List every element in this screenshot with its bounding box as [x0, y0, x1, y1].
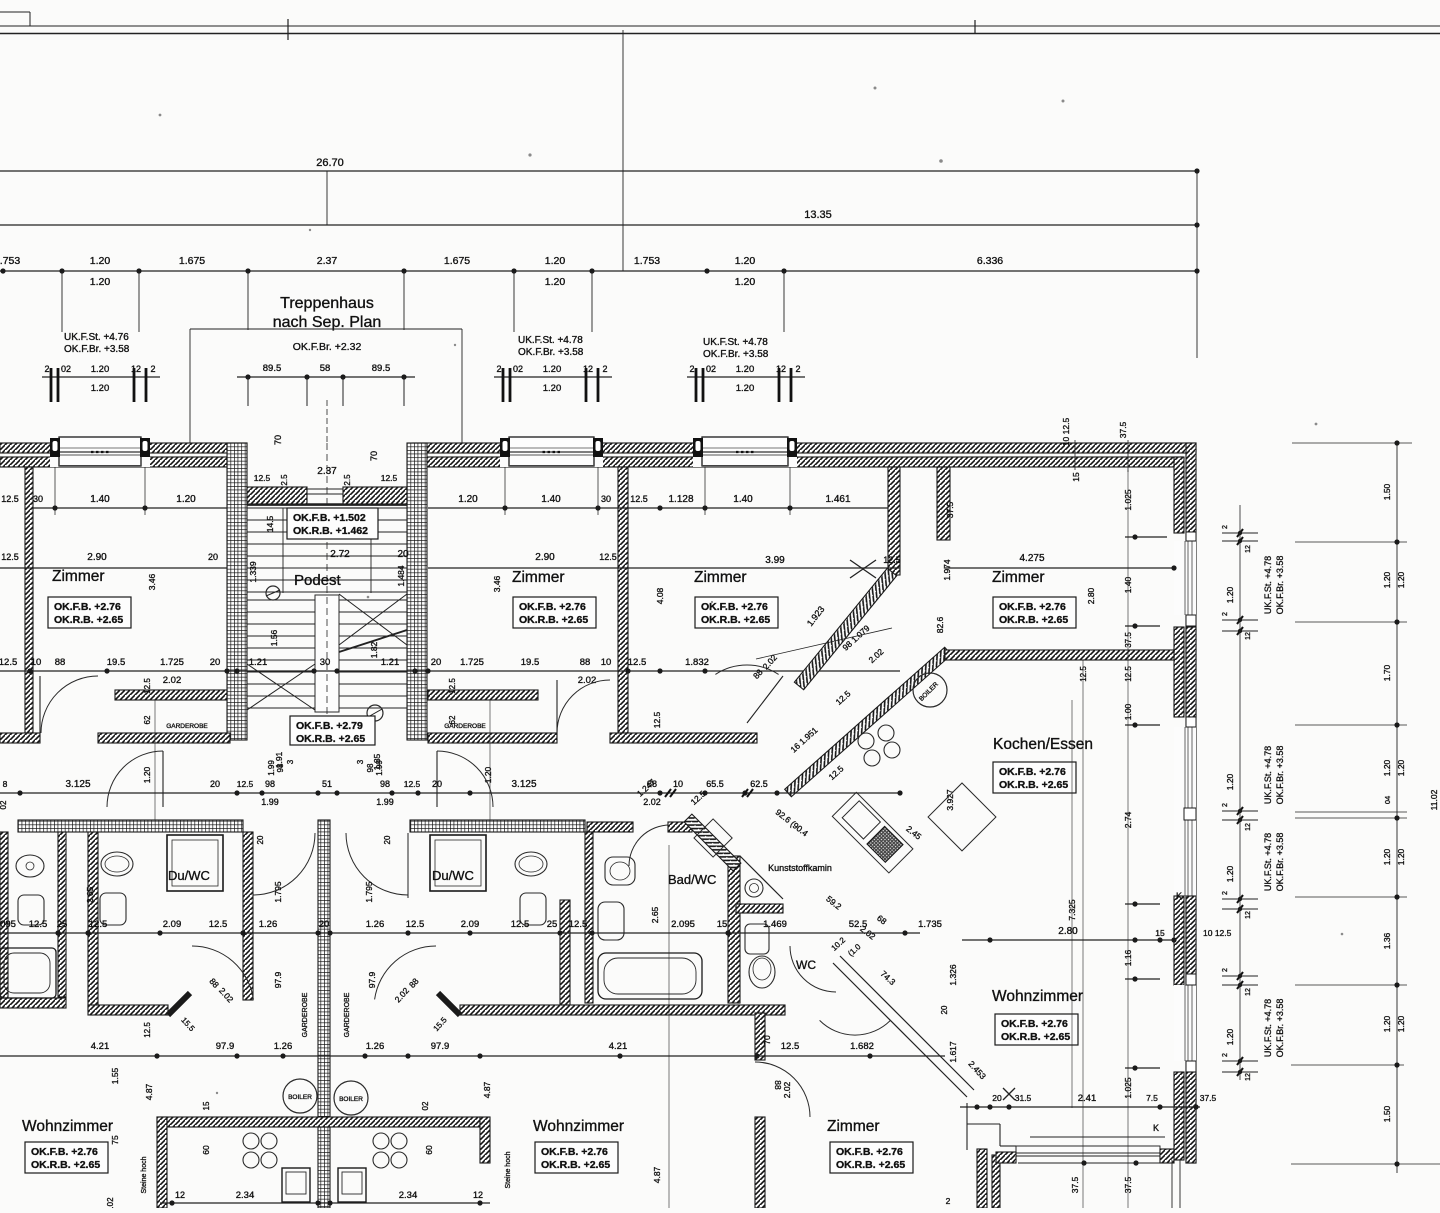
right grid line y542 — [1295, 541, 1407, 543]
wall x157 — [157, 1117, 167, 1208]
svg-text:1.20: 1.20 — [90, 276, 111, 288]
svg-text:88: 88 — [580, 657, 591, 668]
svg-text:1.21: 1.21 — [381, 657, 400, 668]
door arc corridor right — [346, 833, 408, 895]
svg-text:2: 2 — [1222, 891, 1229, 895]
svg-text:10 12.5: 10 12.5 — [1061, 418, 1071, 447]
svg-text:12.5: 12.5 — [630, 494, 648, 504]
vertical separator line — [622, 30, 624, 271]
svg-text:12: 12 — [473, 1190, 483, 1200]
svg-text:.02: .02 — [106, 1197, 115, 1208]
svg-text:OK.F.B. +2.76: OK.F.B. +2.76 — [31, 1146, 98, 1158]
svg-text:3.99: 3.99 — [765, 555, 785, 566]
svg-text:OK.F.B. +2.76: OK.F.B. +2.76 — [701, 601, 768, 613]
svg-text:2.5: 2.5 — [343, 474, 352, 486]
right grid line y812 — [1295, 811, 1407, 813]
svg-text:12.5: 12.5 — [406, 919, 425, 930]
stair entry wall right part — [343, 487, 407, 504]
door arc corridor to DuWC right — [437, 751, 493, 807]
svg-text:OK.F.Br. +3.58: OK.F.Br. +3.58 — [1275, 746, 1285, 805]
svg-text:20: 20 — [992, 1093, 1002, 1103]
svg-text:20: 20 — [210, 779, 220, 789]
extension line x1128 — [1127, 470, 1129, 1208]
wall below Zimmer1 left part — [0, 733, 40, 743]
svg-text:1.675: 1.675 — [444, 255, 470, 267]
svg-text:1.795: 1.795 — [273, 881, 283, 903]
svg-text:K: K — [1153, 1123, 1159, 1133]
exterior wall top inner left — [0, 457, 247, 467]
Zimmer5 level box — [830, 1142, 913, 1173]
door arc hall left — [192, 946, 253, 999]
svg-text:10 12.5: 10 12.5 — [1203, 928, 1232, 938]
svg-text:4.275: 4.275 — [1019, 553, 1044, 564]
bay corner left small — [996, 1152, 1016, 1163]
svg-text:1.20: 1.20 — [91, 383, 110, 394]
svg-text:Du/WC: Du/WC — [432, 868, 474, 883]
svg-text:13.35: 13.35 — [804, 209, 832, 221]
far right vertical — [1396, 443, 1398, 1173]
svg-text:4.87: 4.87 — [652, 1166, 662, 1183]
svg-text:Treppenhaus: Treppenhaus — [280, 295, 374, 312]
svg-text:2: 2 — [150, 364, 155, 374]
svg-text:OK.R.B. +2.65: OK.R.B. +2.65 — [296, 733, 365, 745]
small dim group mid — [494, 376, 612, 378]
svg-text:30: 30 — [33, 494, 43, 504]
svg-text:OK.R.B. +2.65: OK.R.B. +2.65 — [31, 1159, 100, 1171]
svg-text:2.90: 2.90 — [535, 552, 555, 563]
svg-text:97.9: 97.9 — [273, 971, 283, 988]
sheet border top double line — [0, 25, 1440, 27]
svg-text:1.795: 1.795 — [364, 881, 374, 903]
svg-text:1.99: 1.99 — [376, 797, 394, 807]
svg-text:20: 20 — [319, 919, 330, 930]
boiler right — [334, 1081, 368, 1115]
svg-text:15: 15 — [1155, 928, 1165, 938]
svg-text:37.5: 37.5 — [1124, 632, 1133, 648]
svg-text:Wohnzimmer: Wohnzimmer — [22, 1118, 113, 1135]
svg-text:OK.R.B. +2.65: OK.R.B. +2.65 — [701, 614, 770, 626]
svg-text:12.5: 12.5 — [448, 678, 457, 694]
svg-text:58: 58 — [320, 363, 331, 374]
svg-text:1.40: 1.40 — [541, 494, 561, 505]
svg-text:26.70: 26.70 — [316, 157, 344, 169]
svg-text:37.5: 37.5 — [1070, 1176, 1080, 1193]
svg-text:OK.F.B. +2.76: OK.F.B. +2.76 — [519, 601, 586, 613]
svg-text:1.21: 1.21 — [249, 657, 268, 668]
stair break X right — [339, 594, 407, 645]
svg-text:1.20: 1.20 — [1396, 1015, 1406, 1032]
extension line x1072 — [1071, 700, 1073, 1108]
svg-text:Zimmer: Zimmer — [694, 569, 747, 586]
svg-text:97.9: 97.9 — [367, 971, 377, 988]
right grid line y443 — [1292, 442, 1412, 444]
svg-text:12: 12 — [131, 364, 141, 374]
svg-text:12.5: 12.5 — [381, 473, 398, 483]
svg-text:12.5: 12.5 — [254, 473, 271, 483]
hob circles right — [373, 1133, 389, 1149]
door arc corridor to DuWC left — [107, 751, 163, 807]
svg-text:1.40: 1.40 — [733, 494, 753, 505]
wall x728 — [728, 856, 740, 1003]
svg-text:12: 12 — [175, 1190, 185, 1200]
svg-text:GARDEROBE: GARDEROBE — [344, 992, 351, 1037]
svg-text:Podest: Podest — [294, 572, 342, 589]
svg-text:98: 98 — [380, 779, 390, 789]
bay outline — [1030, 1136, 1165, 1138]
garderobe wall left apt — [115, 690, 227, 700]
svg-text:30: 30 — [320, 657, 331, 668]
svg-text:1.26: 1.26 — [366, 919, 385, 930]
dim row y566 left — [0, 567, 227, 569]
svg-text:12.5: 12.5 — [1, 494, 19, 504]
svg-text:70: 70 — [762, 1035, 772, 1045]
right wall pier 4 outer — [1186, 1072, 1196, 1163]
toilet Bad/WC — [605, 857, 635, 885]
svg-text:3: 3 — [356, 759, 365, 764]
svg-text:2: 2 — [689, 364, 694, 374]
svg-text:37.5: 37.5 — [1123, 1176, 1133, 1193]
svg-text:12.5: 12.5 — [237, 779, 254, 789]
shower Du/WC left — [167, 835, 223, 891]
svg-text:14.5: 14.5 — [265, 515, 275, 532]
Kochen level box — [993, 762, 1076, 793]
svg-text:OK.F.B. +2.76: OK.F.B. +2.76 — [999, 766, 1066, 778]
dim row 4.275 — [945, 567, 1174, 569]
svg-text:1.20: 1.20 — [735, 255, 756, 267]
extension line x155 — [154, 700, 156, 820]
svg-text:GARDEROBE: GARDEROBE — [166, 723, 208, 730]
Wohnzimmer3 level box — [995, 1014, 1078, 1045]
svg-text:2: 2 — [1222, 803, 1229, 807]
window W3 — [693, 443, 797, 467]
diagonal wall WC/Wohnzimmer — [833, 963, 967, 1097]
svg-text:6.336: 6.336 — [977, 255, 1003, 267]
svg-text:2: 2 — [602, 364, 607, 374]
boiler left — [283, 1079, 317, 1113]
svg-text:10: 10 — [673, 779, 683, 789]
svg-text:1.50: 1.50 — [1382, 1105, 1392, 1122]
dim 13.35 — [0, 224, 1197, 226]
svg-text:OK.F.Br. +3.58: OK.F.Br. +3.58 — [64, 344, 130, 355]
right grid line y818 — [1295, 817, 1407, 819]
svg-text:37.5: 37.5 — [945, 501, 955, 518]
wall x755 lower — [755, 1117, 765, 1208]
svg-text:2: 2 — [795, 364, 800, 374]
svg-text:3.927: 3.927 — [945, 789, 955, 811]
svg-text:2: 2 — [44, 364, 49, 374]
stair rail line — [282, 508, 284, 593]
svg-text:12: 12 — [1245, 911, 1252, 919]
break mark X — [850, 560, 876, 578]
svg-text:1.20: 1.20 — [1396, 571, 1406, 588]
stair break X left — [247, 664, 315, 710]
svg-text:2: 2 — [1222, 1053, 1229, 1057]
wall x755 upper — [755, 1013, 765, 1060]
svg-text:7.5: 7.5 — [1146, 1093, 1158, 1103]
svg-text:3.46: 3.46 — [147, 573, 157, 590]
svg-text:UK.F.St. +4.78: UK.F.St. +4.78 — [1263, 833, 1273, 891]
svg-text:2.65: 2.65 — [85, 886, 95, 903]
svg-text:20: 20 — [383, 835, 392, 844]
Wohnzimmer2 level box — [535, 1142, 618, 1173]
svg-text:1.20: 1.20 — [458, 494, 478, 505]
svg-text:31.5: 31.5 — [1015, 1093, 1032, 1103]
window — [1174, 541, 1196, 615]
svg-text:20: 20 — [210, 657, 221, 668]
exterior wall right outer — [1186, 443, 1196, 1163]
svg-text:1.461: 1.461 — [825, 494, 850, 505]
dim row y1056 — [0, 1055, 945, 1057]
wall below Zimmer1 right part — [98, 733, 230, 743]
svg-text:1.20: 1.20 — [543, 383, 562, 394]
svg-text:OK.F.Br. +3.58: OK.F.Br. +3.58 — [1275, 833, 1285, 892]
wall x58 — [58, 832, 66, 997]
svg-text:12.5: 12.5 — [143, 678, 152, 694]
svg-text:2.37: 2.37 — [317, 255, 338, 267]
svg-text:Wohnzimmer: Wohnzimmer — [992, 988, 1083, 1005]
svg-text:10: 10 — [601, 657, 612, 668]
toilet right1 — [515, 852, 547, 876]
svg-text:1.20: 1.20 — [483, 766, 493, 783]
svg-text:Zimmer: Zimmer — [992, 569, 1045, 586]
chimney body — [694, 819, 732, 857]
diagonal wall D2 kitchen — [785, 647, 952, 796]
svg-text:Steine hoch: Steine hoch — [505, 1151, 512, 1188]
svg-text:2.34: 2.34 — [399, 1190, 418, 1201]
svg-text:12.5: 12.5 — [1124, 666, 1133, 682]
right grid line y985 — [1295, 984, 1407, 986]
right wall pier 3 outer — [1186, 896, 1196, 985]
diagonal wall D3 — [684, 814, 741, 871]
svg-text:98: 98 — [265, 779, 275, 789]
right wall pier 2 outer — [1186, 627, 1196, 717]
exterior wall top outer left — [0, 443, 247, 453]
bathtub right — [598, 953, 702, 999]
svg-text:1.26: 1.26 — [259, 919, 278, 930]
svg-text:GARDEROBE: GARDEROBE — [302, 992, 309, 1037]
svg-text:2.72: 2.72 — [330, 549, 350, 560]
svg-text:UK.F.St. +4.78: UK.F.St. +4.78 — [518, 335, 583, 346]
svg-text:OK.F.B. +2.76: OK.F.B. +2.76 — [541, 1146, 608, 1158]
svg-text:OK.R.B. +2.65: OK.R.B. +2.65 — [541, 1159, 610, 1171]
small dim group right — [687, 376, 805, 378]
svg-text:89.5: 89.5 — [372, 363, 391, 374]
bath bottom wall left — [0, 998, 66, 1008]
svg-text:1.20: 1.20 — [1382, 759, 1392, 776]
svg-text:4.21: 4.21 — [91, 1041, 110, 1052]
sink unit left — [282, 1168, 310, 1202]
extension line x490 — [489, 700, 491, 820]
door arc Zimmer1 — [41, 676, 98, 733]
svg-text:02: 02 — [0, 800, 8, 809]
bay window steps — [966, 1103, 968, 1150]
kitchen counter with sink — [832, 792, 913, 873]
hall level box — [290, 716, 375, 745]
svg-text:1.20: 1.20 — [1396, 759, 1406, 776]
wall Zimmer4/Kochen — [945, 650, 1174, 660]
WC niche toilet — [745, 879, 763, 897]
svg-text:1.99: 1.99 — [261, 797, 279, 807]
dim row y566 mid — [428, 567, 900, 569]
corridor dim row y793 right — [455, 792, 900, 794]
svg-text:OK.F.Br. +3.58: OK.F.Br. +3.58 — [1275, 999, 1285, 1058]
extension line x1083 — [1082, 660, 1084, 1208]
wall pier lines — [899, 467, 901, 540]
svg-text:Du/WC: Du/WC — [168, 868, 210, 883]
stair circles — [266, 586, 280, 600]
svg-text:1.55: 1.55 — [110, 1067, 120, 1084]
svg-text:OK.F.B. +2.76: OK.F.B. +2.76 — [1001, 1018, 1068, 1030]
svg-text:UK.F.St. +4.78: UK.F.St. +4.78 — [703, 337, 768, 348]
svg-text:12.5: 12.5 — [628, 657, 647, 668]
bay window sill — [1016, 1146, 1160, 1153]
svg-text:1.26: 1.26 — [274, 1041, 293, 1052]
kitchen hotplates — [858, 733, 874, 749]
svg-text:1.91: 1.91 — [274, 751, 284, 768]
svg-text:12.5: 12.5 — [1079, 666, 1088, 682]
stair entry wall left part — [247, 487, 307, 504]
svg-text:Zimmer: Zimmer — [52, 568, 105, 585]
svg-text:12.5: 12.5 — [404, 779, 421, 789]
svg-text:25: 25 — [547, 919, 558, 930]
svg-text:1.20: 1.20 — [142, 766, 152, 783]
svg-text:12.5: 12.5 — [569, 919, 588, 930]
treppenhaus outline box — [190, 328, 462, 330]
svg-text:1.85: 1.85 — [372, 753, 382, 770]
svg-text:12: 12 — [1245, 988, 1252, 996]
svg-text:30: 30 — [601, 494, 611, 504]
stair treads left flight — [247, 599, 315, 601]
svg-text:1.753: 1.753 — [634, 255, 660, 267]
extension line x669 — [668, 845, 670, 1208]
svg-text:UK.F.St. +4.78: UK.F.St. +4.78 — [1263, 746, 1273, 804]
svg-text:1.469: 1.469 — [763, 919, 787, 930]
wall above Wohnzimmer kitchens — [157, 1117, 480, 1127]
svg-text:2.09: 2.09 — [163, 919, 182, 930]
svg-text:OK.F.Br. +3.58: OK.F.Br. +3.58 — [1275, 556, 1285, 615]
door arc hall to kitchen — [715, 665, 778, 674]
svg-text:82.6: 82.6 — [935, 616, 945, 633]
svg-text:2.65: 2.65 — [650, 906, 660, 923]
svg-text:.753: .753 — [0, 255, 20, 267]
hall wall left — [88, 1005, 168, 1015]
svg-text:2.34: 2.34 — [236, 1190, 255, 1201]
svg-text:2: 2 — [496, 364, 501, 374]
exterior wall top outer right — [413, 443, 1196, 453]
svg-text:BOILER: BOILER — [339, 1096, 363, 1103]
plumbing wall right apt — [410, 820, 585, 832]
wall between Zimmer2 and Zimmer3 — [618, 467, 628, 733]
svg-text:1.20: 1.20 — [736, 383, 755, 394]
extension lines below dim row — [61, 271, 63, 332]
svg-text:12: 12 — [1245, 1073, 1252, 1081]
window — [1174, 985, 1196, 1061]
svg-text:20: 20 — [940, 1005, 949, 1014]
svg-text:2: 2 — [1222, 968, 1229, 972]
svg-text:Kochen/Essen: Kochen/Essen — [993, 736, 1093, 753]
svg-text:2: 2 — [1222, 525, 1229, 529]
svg-text:1.20: 1.20 — [1382, 571, 1392, 588]
right grid line y897 — [1295, 896, 1407, 898]
svg-text:1.50: 1.50 — [1382, 483, 1392, 500]
bad wall — [587, 822, 633, 832]
exterior wall right inner upper — [1174, 457, 1184, 533]
svg-text:12: 12 — [1245, 823, 1252, 831]
hall wall right — [460, 1005, 785, 1015]
party wall center — [318, 820, 330, 1208]
svg-text:12.5: 12.5 — [29, 919, 48, 930]
right grid line y1065 — [1291, 1064, 1404, 1066]
svg-text:OK.R.B. +2.65: OK.R.B. +2.65 — [519, 614, 588, 626]
svg-text:1.20: 1.20 — [90, 255, 111, 267]
sink left2 — [100, 893, 126, 925]
svg-text:12.5: 12.5 — [883, 555, 901, 565]
svg-text:OK.F.B. +2.76: OK.F.B. +2.76 — [54, 601, 121, 613]
svg-text:OK.R.B. +2.65: OK.R.B. +2.65 — [999, 779, 1068, 791]
svg-text:OK.F.B. +2.79: OK.F.B. +2.79 — [296, 720, 363, 732]
svg-text:1.20: 1.20 — [1225, 1028, 1235, 1045]
svg-text:12.5: 12.5 — [599, 552, 617, 562]
svg-text:2.02: 2.02 — [578, 675, 597, 686]
right wall pier 2 — [1174, 627, 1184, 717]
entry door sill — [307, 488, 343, 490]
svg-text:Bad/WC: Bad/WC — [668, 872, 716, 887]
svg-text:OK.R.B. +2.65: OK.R.B. +2.65 — [54, 614, 123, 626]
corridor dim row y793 left — [0, 792, 455, 794]
window W2 — [500, 443, 603, 467]
window dim ticks y620 — [1222, 619, 1258, 621]
svg-text:2.80: 2.80 — [1086, 587, 1096, 604]
svg-text:04: 04 — [1383, 796, 1392, 804]
svg-text:8: 8 — [3, 779, 8, 789]
svg-text:1.832: 1.832 — [685, 657, 709, 668]
svg-text:12.5: 12.5 — [781, 1041, 800, 1052]
svg-text:1.20: 1.20 — [545, 255, 566, 267]
window dim ticks y533 — [1222, 532, 1258, 534]
svg-text:1.20: 1.20 — [1382, 848, 1392, 865]
dim row y933 — [0, 932, 920, 934]
wall right of Zimmer3 — [888, 467, 900, 575]
svg-text:88: 88 — [55, 657, 66, 668]
right wall pier 4 — [1174, 1072, 1184, 1160]
svg-text:02: 02 — [706, 364, 716, 374]
svg-text:62.5: 62.5 — [750, 779, 768, 789]
treppenhaus wall left — [227, 443, 247, 740]
svg-text:1.20: 1.20 — [1225, 865, 1235, 882]
door arc diagonal — [820, 1020, 891, 1035]
dim row bottom — [160, 1202, 490, 1204]
hob circles left — [243, 1133, 259, 1149]
door arc Zimmer5 — [755, 1062, 810, 1117]
door arc WC — [790, 946, 836, 992]
svg-text:UK.F.St. +4.78: UK.F.St. +4.78 — [1263, 999, 1273, 1057]
bay corner right — [1160, 1149, 1174, 1163]
svg-text:4.87: 4.87 — [482, 1081, 492, 1098]
svg-text:1.20: 1.20 — [543, 364, 562, 375]
Zimmer2 level box — [513, 597, 596, 628]
svg-text:10: 10 — [31, 657, 42, 668]
svg-text:BOILER: BOILER — [288, 1094, 312, 1101]
Zimmer4 level box — [993, 597, 1076, 628]
svg-text:1.735: 1.735 — [918, 919, 942, 930]
svg-text:65.5: 65.5 — [706, 779, 724, 789]
svg-text:12: 12 — [583, 364, 593, 374]
svg-text:1.20: 1.20 — [1225, 773, 1235, 790]
treppenhaus small dims 89.5 58 89.5 — [237, 376, 415, 378]
svg-text:1.339: 1.339 — [248, 561, 258, 583]
svg-text:12.5: 12.5 — [143, 1022, 152, 1038]
triangle wall by WC — [740, 856, 783, 899]
